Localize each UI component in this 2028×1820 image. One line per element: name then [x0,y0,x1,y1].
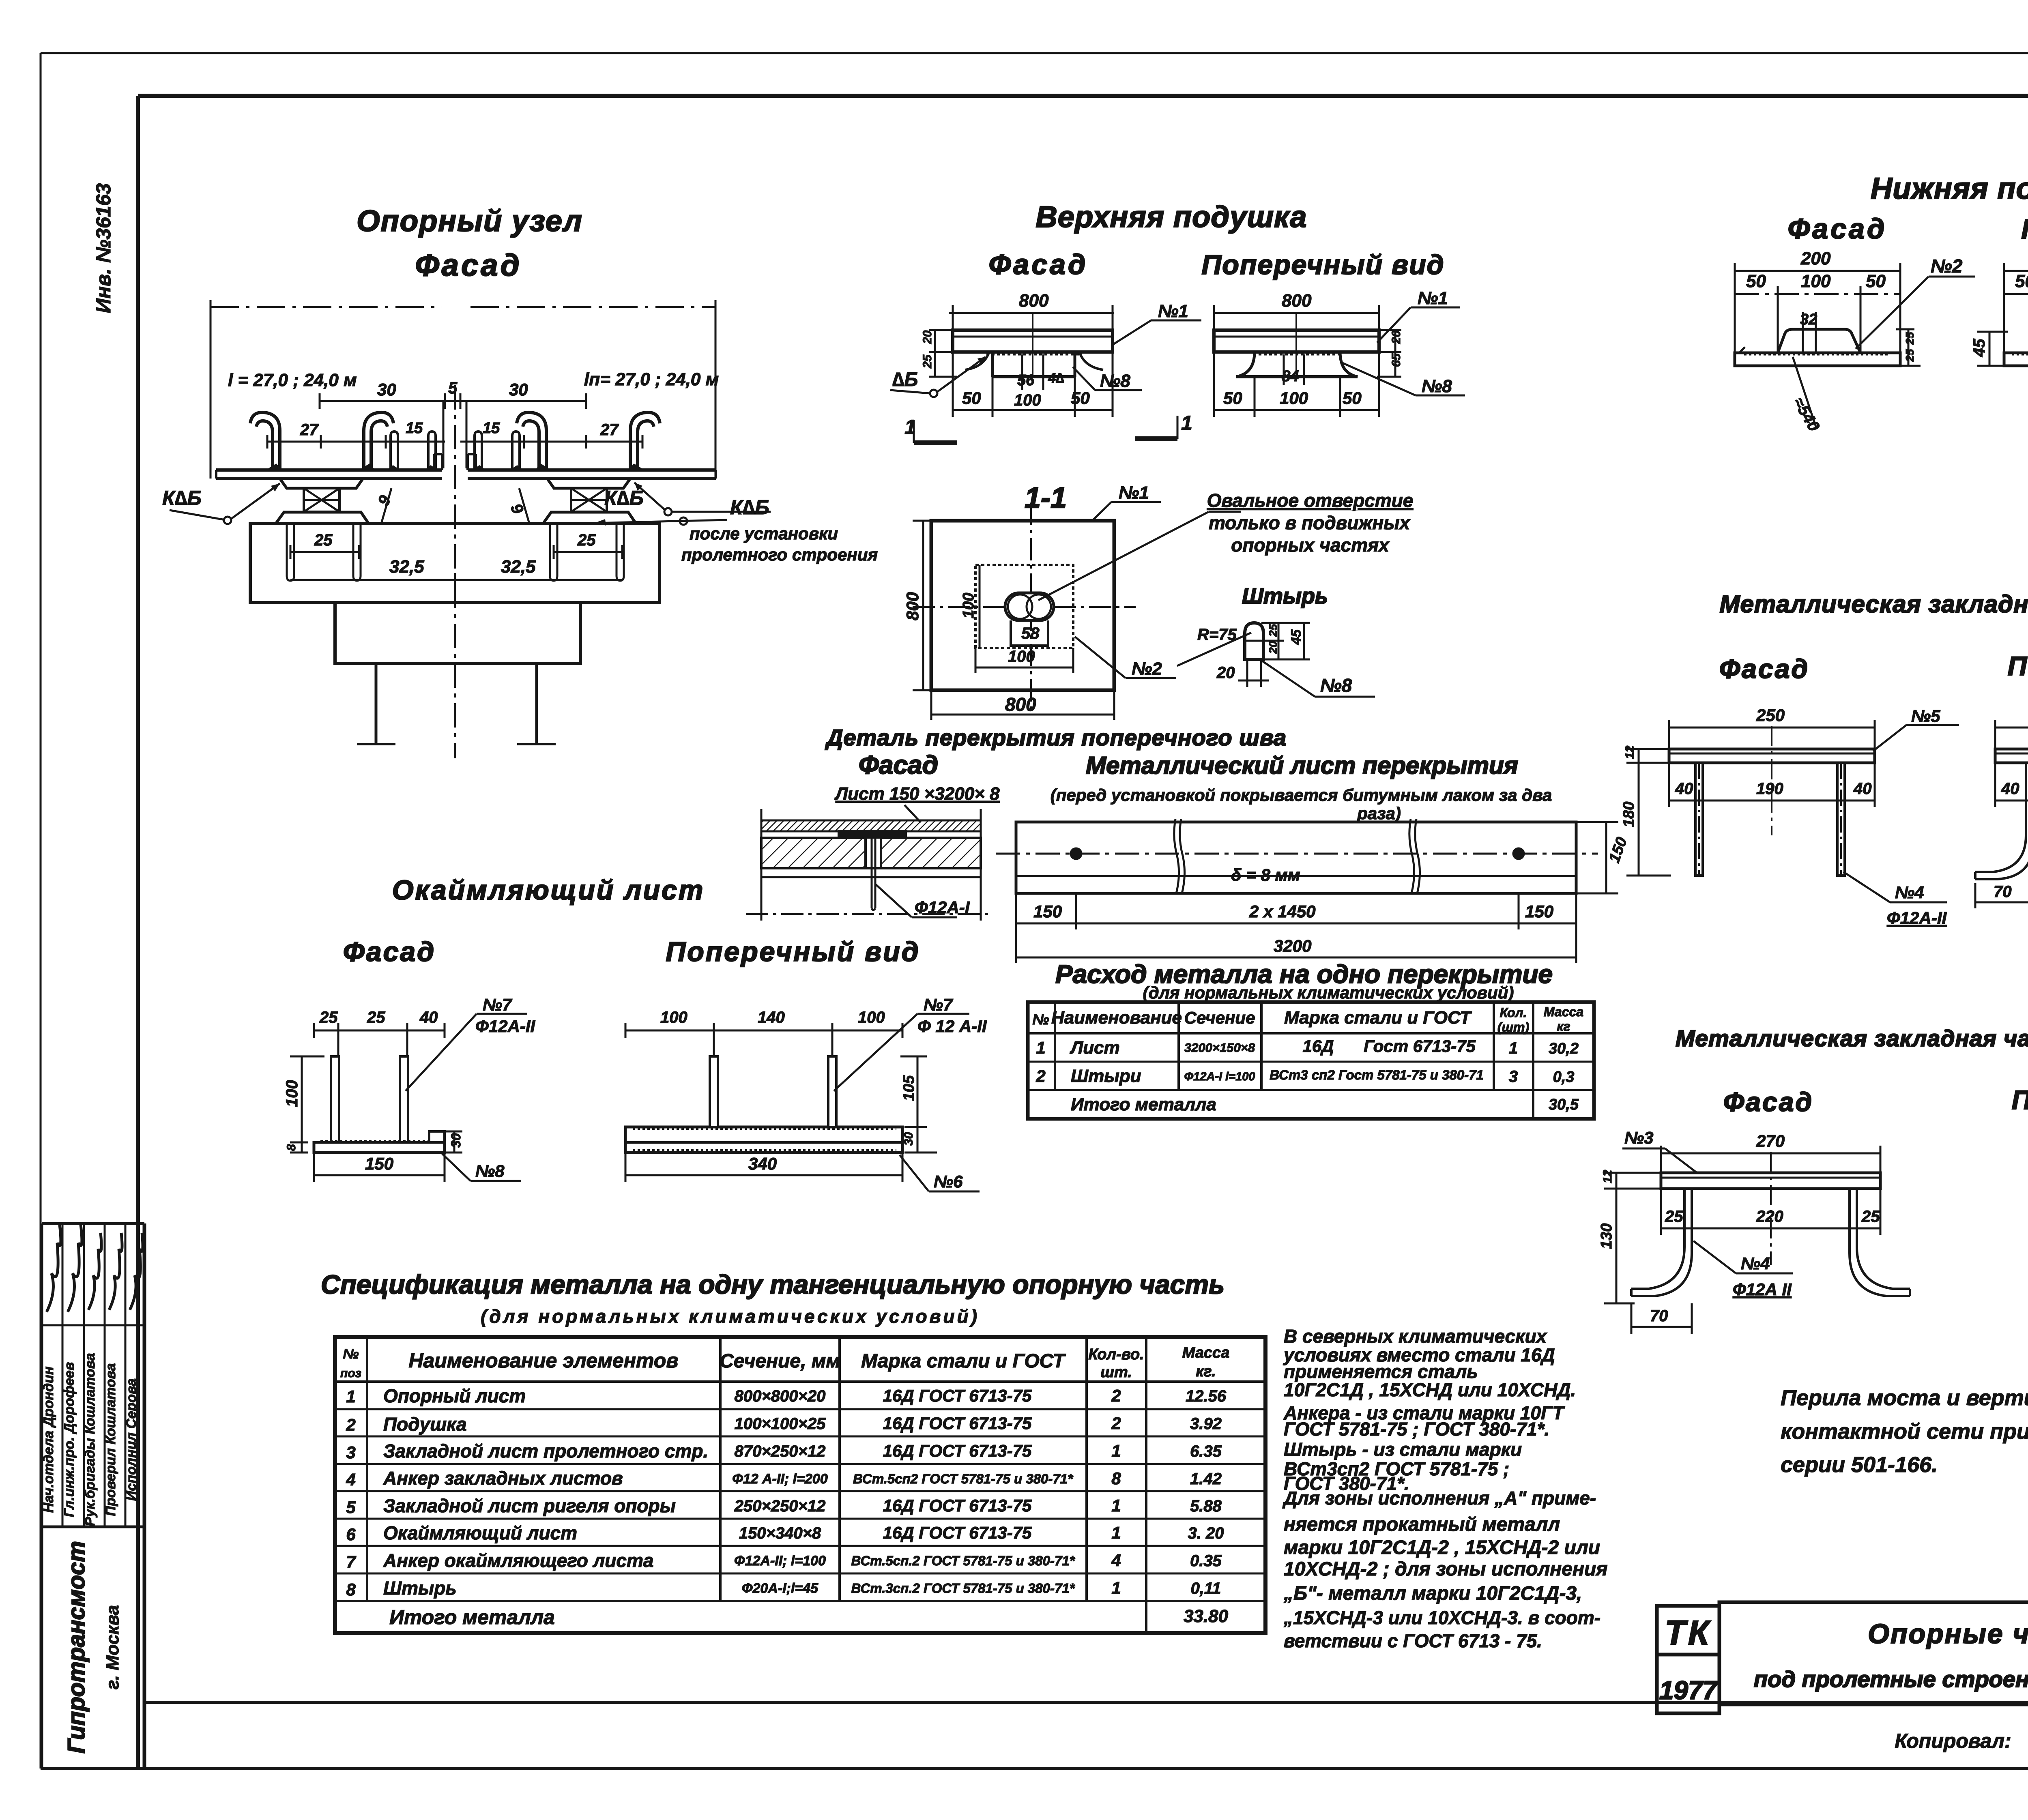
svg-text:70: 70 [1994,883,2012,901]
svg-text:15: 15 [483,420,500,437]
rotated inventory note left top [92,183,115,313]
закладная пролетного фасад: лист с отгибами [1631,1173,1910,1296]
svg-text:Гл.инж.про. Дорофеев: Гл.инж.про. Дорофеев [62,1362,77,1517]
svg-text:30: 30 [509,380,528,399]
svg-text:16Д ГОСТ 6713-75: 16Д ГОСТ 6713-75 [883,1441,1032,1460]
svg-text:Фасад: Фасад [343,936,436,967]
svg-text:ВСт3 сп2 Гост 5781-75 и 380: ВСт3 сп2 Гост 5781-75 и 380-71 [1270,1067,1484,1082]
svg-text:16Д: 16Д [1302,1037,1334,1056]
верхняя подушка поперечный вид: выноска N1 [1377,288,1460,343]
svg-text:Поперечный вид: Поперечный вид [2012,1085,2028,1115]
svg-text:Поперечный вид: Поперечный вид [1201,249,1444,280]
svg-text:Окаймляющий лист: Окаймляющий лист [392,875,705,906]
svg-text:1977: 1977 [1659,1676,1719,1705]
закладная ригеля поперечный вид: размер 250 [1995,706,2028,750]
металлический лист: контур в плане [996,822,1598,893]
сечение 1-1: овальное отверстие [1005,593,1054,646]
svg-text:5: 5 [448,379,458,397]
svg-text:3.92: 3.92 [1190,1415,1222,1433]
svg-text:150×340×8: 150×340×8 [739,1524,821,1542]
окаймляющий лист: титул [343,875,920,967]
svg-text:58: 58 [1021,625,1040,642]
окаймляющий лист фасад: размер 150 внизу [314,1153,445,1182]
сечение 1-1: опорный лист в плане [931,521,1114,690]
svg-text:∆Б: ∆Б [892,369,918,391]
svg-text:Для зоны исполнения „А" приме: Для зоны исполнения „А" приме- [1282,1487,1596,1509]
верхняя подушка фасад: подушка [993,352,1075,409]
нижняя подушка: титул [1788,172,2028,245]
svg-text:Подушка: Подушка [383,1414,467,1435]
bottom strip captions [1895,1728,2028,1752]
закладная ригеля поперечный вид: размеры 40 170 40 [1995,763,2028,807]
окаймляющий лист поперечный вид: размер 340 внизу [625,1153,902,1182]
svg-text:няется прокатный металл: няется прокатный металл [1284,1514,1560,1535]
svg-text:105: 105 [900,1075,917,1101]
svg-text:Спецификация металла на одну: Спецификация металла на одну тангенциаль… [321,1269,1225,1299]
опорный узел: ригель опоры [250,524,660,603]
деталь перекрытия фасад: выноска листа [834,784,1000,822]
svg-text:25: 25 [314,531,333,549]
верхняя подушка поперечный вид: размер 800 [1214,291,1379,328]
сечение 1-1: выноска N2 [1075,637,1176,679]
svg-text:Ф12А-II: Ф12А-II [475,1017,535,1036]
metal usage table grid [1028,1002,1594,1119]
svg-text:3200×150×8: 3200×150×8 [1184,1041,1255,1055]
svg-text:25: 25 [1903,349,1916,362]
деталь перекрытия: титулы [825,725,1552,823]
svg-text:800: 800 [903,592,922,620]
штырь: размер 20 внизу [1216,664,1269,687]
закладная ригеля фасад: размер 250 [1669,706,1875,750]
svg-text:150: 150 [365,1154,393,1173]
окаймляющий лист поперечный вид: размеры справа [900,1056,937,1153]
окаймляющий лист поперечный вид: лист со штырями [625,1056,902,1153]
нижняя подушка поперечный вид: подушка [2004,320,2028,366]
svg-text:5.88: 5.88 [1190,1497,1222,1515]
svg-text:100: 100 [858,1009,885,1026]
svg-text:6.35: 6.35 [1190,1442,1222,1460]
штырь: деталь [1245,623,1263,680]
svg-text:3200: 3200 [1274,936,1311,955]
svg-text:Закладной лист ригеля опоры: Закладной лист ригеля опоры [383,1495,676,1516]
svg-text:50: 50 [1343,388,1362,408]
сечение 1-1: размер 100 внизу [975,648,1073,673]
svg-text:Инв. №36163: Инв. №36163 [92,183,115,313]
svg-text:Анкер окаймляющего листа: Анкер окаймляющего листа [383,1550,653,1571]
svg-text:Опорный лист: Опорный лист [383,1385,526,1406]
svg-text:1: 1 [904,416,916,438]
svg-text:Масса: Масса [1544,1004,1583,1019]
svg-text:Перила моста и вертикальный: Перила моста и вертикальный щит огражден… [1781,1386,2028,1410]
svg-text:Копировал:: Копировал: [1895,1730,2011,1752]
svg-text:Лист: Лист [1070,1038,1120,1058]
металлический лист: размеры справа 140 150 [1574,822,1631,893]
svg-text:Штыри: Штыри [1071,1066,1141,1086]
svg-text:100: 100 [1801,271,1831,291]
сечение 1-1: размер 100 слева [960,565,980,648]
svg-text:27: 27 [300,421,319,439]
svg-text:100: 100 [960,593,977,618]
svg-text:40: 40 [419,1009,438,1026]
svg-text:20: 20 [1216,664,1235,682]
svg-text:ВСт.3сп.2 ГОСТ 5781-75 и 380-7: ВСт.3сп.2 ГОСТ 5781-75 и 380-71* [851,1581,1075,1596]
опорный узел: выноска КДБ левая [162,483,280,524]
svg-text:100: 100 [283,1080,301,1107]
опорный узел: верхняя размерная линия [211,300,719,479]
штырь: размер R=75 [1177,626,1251,666]
svg-text:№8: №8 [1320,675,1352,696]
svg-text:Лист 150 ×3200× 8: Лист 150 ×3200× 8 [834,784,1000,804]
опорный узел: нижний уступ [335,603,580,663]
окаймляющий лист фасад: выноска N7 [406,995,535,1091]
опорный узел: размер 30 5 30 [320,379,586,409]
деталь перекрытия фасад: бетон с штриховкой [761,838,981,877]
svg-text:Гост 6713-75: Гост 6713-75 [1364,1037,1476,1056]
svg-text:30: 30 [449,1133,463,1148]
svg-text:800: 800 [1005,694,1036,715]
svg-text:870×250×12: 870×250×12 [735,1442,826,1460]
svg-text:Окаймляющий лист: Окаймляющий лист [383,1522,577,1543]
svg-text:70: 70 [1650,1307,1668,1325]
svg-text:32: 32 [1800,311,1817,328]
штырь: титул [1242,584,1328,608]
svg-text:Нижняя подушка: Нижняя подушка [1871,172,2028,205]
деталь перекрытия фасад: выноска Ф12А-I [875,884,970,917]
svg-text:(для нормальных климатических: (для нормальных климатических условий) [481,1306,980,1327]
svg-text:10Г2С1Д , 15ХСНД или 10ХС: 10Г2С1Д , 15ХСНД или 10ХСНД. [1284,1379,1576,1400]
закладная пролетного фасад: выноска N4 [1693,1241,1793,1299]
svg-text:№1: №1 [1119,483,1149,503]
svg-text:2: 2 [1111,1386,1121,1405]
svg-text:контактной сети принимать: контактной сети принимать по проекту [1781,1419,2028,1444]
svg-text:12: 12 [1623,745,1637,759]
svg-text:50: 50 [1866,271,1886,291]
svg-text:800: 800 [1282,291,1312,311]
svg-text:пролетного строения: пролетного строения [681,545,878,564]
svg-text:1: 1 [1036,1038,1045,1057]
svg-text:40: 40 [1853,780,1872,798]
svg-text:№7: №7 [924,995,953,1014]
svg-text:Деталь перекрытия поперечног: Деталь перекрытия поперечного шва [825,725,1287,750]
svg-text:25: 25 [577,531,596,549]
закладная ригеля фасад: лист с анкерами [1669,749,1875,876]
svg-text:К∆Б: К∆Б [730,496,769,519]
svg-text:27: 27 [600,421,619,439]
svg-text:25: 25 [367,1009,385,1026]
svg-text:г. Москва: г. Москва [103,1605,122,1689]
svg-text:45: 45 [1289,629,1304,645]
закладная часть пролетного строения: титул [1676,1026,2028,1117]
svg-text:ВСт.5сп.2 ГОСТ 5781-75 и 380-7: ВСт.5сп.2 ГОСТ 5781-75 и 380-71* [851,1553,1075,1568]
опорный узел: осевая линия [454,385,456,758]
опорный узел: выноска КДБ правая верхняя [604,483,771,515]
опорный узел: штыри левой балки [391,431,436,470]
закладная ригеля фасад: выноска N4 [1843,872,1947,927]
закладная пролетного фасад: размеры 25 220 25 [1661,1189,1880,1235]
svg-text:140: 140 [758,1009,785,1026]
specification table text [340,1344,1229,1629]
svg-text:40: 40 [1675,780,1693,798]
svg-text:130: 130 [1598,1223,1615,1249]
svg-text:3: 3 [1509,1068,1518,1086]
svg-text:Ф20А-I;l=45: Ф20А-I;l=45 [742,1581,819,1596]
верхняя подушка фасад: метка сечения 1-1 [904,412,1192,443]
металлический лист: отверстия [1071,848,1524,859]
svg-text:180: 180 [1620,802,1637,827]
svg-text:1: 1 [1111,1441,1121,1460]
svg-text:25: 25 [1267,624,1279,637]
svg-text:Ф12А II: Ф12А II [1733,1280,1792,1299]
верхняя подушка поперечный вид: опорный лист [1214,314,1379,376]
закладная часть ригеля: титул [1719,590,2028,684]
svg-text:4∆: 4∆ [1048,371,1064,386]
svg-text:В северных климатических: В северных климатических [1284,1326,1548,1347]
нижняя подушка поперечный вид: размеры 50 100 50 [2004,271,2028,355]
svg-text:1: 1 [1111,1578,1121,1597]
svg-text:Опорные части: Опорные части [1868,1618,2028,1649]
svg-text:25: 25 [319,1009,338,1026]
svg-text:12.56: 12.56 [1186,1387,1227,1405]
specification table title [321,1269,1225,1327]
svg-text:30: 30 [377,380,396,399]
svg-text:16Д ГОСТ 6713-75: 16Д ГОСТ 6713-75 [883,1523,1032,1542]
окаймляющий лист фасад: размер 30 справа [442,1131,463,1153]
svg-text:ветствии с ГОСТ 6713 - 75.: ветствии с ГОСТ 6713 - 75. [1284,1630,1542,1651]
верхняя подушка фасад: выноска N8 [1073,367,1142,391]
закладная пролетного фасад: размеры слева 12 130 [1598,1170,1663,1303]
svg-text:№1: №1 [1418,288,1448,308]
svg-text:Нач.отдела Дрондин: Нач.отдела Дрондин [41,1367,56,1513]
svg-text:250: 250 [1756,706,1785,725]
svg-text:l = 27,0 ; 24,0 м: l = 27,0 ; 24,0 м [228,370,357,390]
svg-text:под пролетные строения lп=27.0: под пролетные строения lп=27.0;24,0м [1754,1666,2028,1692]
верхняя подушка поперечный вид: выноска N8 [1343,363,1465,396]
svg-text:20: 20 [1267,641,1279,654]
svg-text:№6: №6 [934,1172,963,1191]
закладная пролетного фасад: размер 270 [1661,1131,1880,1176]
svg-text:30: 30 [902,1132,915,1146]
svg-text:№4: №4 [1895,883,1924,902]
svg-text:Ф12А-I l=100: Ф12А-I l=100 [1184,1070,1255,1083]
нижняя подушка фасад: размеры 50 100 50 [1735,271,1900,355]
опорный узел: анкеры в ригеле [287,524,624,581]
верхняя подушка фасад: размеры 50 100 50 [953,352,1113,417]
svg-text:7: 7 [346,1552,356,1571]
опорный узел: левая полка балки [216,454,442,479]
svg-text:серии 501-166.: серии 501-166. [1781,1453,1938,1477]
svg-text:Ф12 А-II; l=200: Ф12 А-II; l=200 [732,1471,827,1487]
закладная ригеля фасад: размеры слева 12 180 [1620,745,1671,876]
svg-text:Кол.: Кол. [1500,1005,1527,1020]
svg-text:Фасад: Фасад [859,750,938,779]
svg-text:32,5: 32,5 [389,557,424,577]
svg-text:56: 56 [1017,372,1035,389]
окаймляющий лист поперечный вид: размеры 100 140 100 [625,1009,902,1058]
svg-text:50: 50 [2015,271,2028,291]
metal usage table text [1032,1004,1583,1114]
svg-text:кг.: кг. [1196,1363,1216,1380]
svg-text:кг: кг [1557,1019,1570,1034]
svg-text:84: 84 [1282,368,1299,385]
металлический лист: линии обрыва [1174,819,1420,893]
bottom band divider [144,1701,2028,1704]
svg-text:раза): раза) [1357,804,1401,823]
svg-text:№8: №8 [1422,376,1452,396]
svg-text:100: 100 [1008,648,1035,665]
svg-text:опорных частях: опорных частях [1231,534,1390,556]
specification table grid [335,1337,1265,1633]
svg-text:8: 8 [285,1144,298,1151]
svg-text:25: 25 [1665,1208,1683,1225]
svg-text:№8: №8 [475,1161,505,1180]
svg-text:4: 4 [1111,1551,1121,1570]
svg-text:Проверил Кошлатова: Проверил Кошлатова [103,1363,118,1516]
svg-text:50: 50 [962,388,981,408]
svg-text:№3: №3 [1624,1128,1654,1147]
штырь: размеры справа 25 20 45 [1261,623,1310,659]
окаймляющий лист фасад: размеры 25 25 40 [314,1009,445,1058]
svg-text:800×800×20: 800×800×20 [735,1387,826,1405]
опорный узел: размер 25 правый [554,531,622,559]
svg-text:ГОСТ 5781-75 ; ГОСТ 380-71*.: ГОСТ 5781-75 ; ГОСТ 380-71*. [1284,1419,1549,1440]
svg-text:Штырь: Штырь [383,1577,457,1599]
svg-text:16Д ГОСТ 6713-75: 16Д ГОСТ 6713-75 [883,1414,1032,1433]
svg-text:марки 10Г2С1Д-2 , 15ХСНД-2 ил: марки 10Г2С1Д-2 , 15ХСНД-2 или [1284,1537,1600,1558]
закладная пролетного фасад: размер 70 [1631,1303,1692,1334]
деталь перекрытия фасад: лист с битумом [761,820,981,839]
svg-text:800: 800 [1019,291,1049,311]
svg-text:25: 25 [1861,1208,1880,1225]
svg-text:Ф12А-II; l=100: Ф12А-II; l=100 [734,1553,826,1569]
svg-text:№1: №1 [1158,301,1188,321]
svg-text:№: № [1032,1011,1049,1028]
нижняя подушка фасад: подушка с горбом [1735,311,1900,366]
svg-text:№2: №2 [1931,255,1963,277]
деталь перекрытия фасад: ось и границы [746,809,990,921]
верхняя подушка фасад: размер 800 [949,291,1114,328]
сечение 1-1: титул [1025,482,1067,514]
верхняя подушка: титул [989,200,1445,280]
svg-text:№8: №8 [1100,371,1130,391]
нижняя подушка поперечный вид: размер 200 [2004,249,2028,355]
svg-text:Поперечный вид: Поперечный вид [2008,651,2028,681]
svg-text:250×250×12: 250×250×12 [734,1497,826,1515]
svg-text:№: № [343,1346,359,1362]
svg-text:Ф12А-II: Ф12А-II [1887,908,1947,927]
svg-text:(шт): (шт) [1497,1020,1529,1034]
svg-text:5: 5 [346,1498,356,1517]
svg-text:6: 6 [346,1525,356,1544]
сечение 1-1: размер 800 внизу [931,690,1114,720]
svg-text:ВСт.5сп2 ГОСТ 5781-75 и 380-71: ВСт.5сп2 ГОСТ 5781-75 и 380-71* [853,1471,1074,1486]
нижняя подушка фасад: выноска 540 [1790,357,1823,434]
металлический лист: размеры 150 2х1450 150 [1016,893,1576,963]
svg-text:№7: №7 [483,995,512,1014]
svg-text:Гипротрансмост: Гипротрансмост [63,1541,90,1753]
stamp org name rotated [63,1541,122,1753]
верхняя подушка фасад: опорный лист [953,314,1113,376]
svg-text:Штырь: Штырь [1242,584,1328,608]
svg-text:270: 270 [1756,1131,1785,1150]
svg-text:50: 50 [1223,388,1242,408]
svg-text:100×100×25: 100×100×25 [735,1415,826,1433]
svg-text:(для нормальных климатическ: (для нормальных климатических условий) [1143,983,1514,1002]
окаймляющий лист поперечный вид: выноска N6 [900,1155,980,1191]
svg-text:100: 100 [660,1009,687,1026]
верхняя подушка фасад: размеры слева 20 25 [921,330,957,377]
svg-text:3: 3 [346,1443,355,1462]
штырь: выноска N8 [1262,661,1375,697]
сечение 1-1: размер 800 слева [903,521,935,690]
svg-text:33.80: 33.80 [1184,1606,1229,1626]
опорный узел: размер 25 левый [290,531,359,559]
svg-text:Сечение: Сечение [1184,1008,1255,1027]
svg-text:25: 25 [921,354,934,369]
svg-text:Штырь - из стали марки: Штырь - из стали марки [1284,1439,1522,1460]
svg-text:15: 15 [406,420,423,437]
TK year box [1657,1606,1719,1713]
svg-text:Рук.бригады Кошлатова: Рук.бригады Кошлатова [82,1353,98,1526]
svg-text:0,3: 0,3 [1553,1069,1575,1086]
svg-text:16Д ГОСТ 6713-75: 16Д ГОСТ 6713-75 [883,1496,1032,1515]
svg-text:„Б"- металл марки 10Г2С1Д-3: „Б"- металл марки 10Г2С1Д-3, [1283,1583,1582,1604]
svg-text:(перед установкой покрываетс: (перед установкой покрывается битумным л… [1051,786,1552,805]
svg-text:Масса: Масса [1182,1344,1230,1361]
svg-text:Верхняя подушка: Верхняя подушка [1035,200,1307,234]
svg-text:№4: №4 [1741,1254,1770,1273]
svg-text:Наименование элементов: Наименование элементов [408,1349,678,1372]
опорный узел: размер 32,5 32,5 [290,557,622,587]
svg-text:Металлический лист перекрыти: Металлический лист перекрытия [1086,752,1518,779]
svg-text:190: 190 [1756,780,1783,798]
svg-text:Овальное отверстие: Овальное отверстие [1207,490,1414,511]
svg-text:1.42: 1.42 [1190,1470,1222,1488]
сечение 1-1: осевые линии [913,503,1136,714]
svg-text:150: 150 [1033,902,1062,921]
svg-text:32,5: 32,5 [501,557,536,577]
svg-text:45: 45 [1970,339,1988,357]
окаймляющий лист фасад: лист со штырями [314,1056,445,1153]
svg-text:12: 12 [1601,1170,1614,1183]
title block outline [1719,1602,2028,1704]
нижняя подушка поперечный вид: размер 45 [1970,332,2008,366]
svg-text:Поперечный вид: Поперечный вид [2021,214,2028,245]
svg-text:2: 2 [1111,1414,1121,1433]
svg-text:Марка стали и ГОСТ: Марка стали и ГОСТ [861,1350,1066,1372]
svg-text:Кол-во.: Кол-во. [1088,1346,1144,1363]
сечение 1-1: выноска N1 [1067,483,1161,545]
закладная ригеля фасад: размеры 40 190 40 [1669,763,1875,807]
note about railing (right middle) [1781,1386,2028,1477]
svg-text:Сечение, мм: Сечение, мм [720,1350,840,1372]
закладная ригеля фасад: выноска N5 [1873,706,1959,751]
svg-text:220: 220 [1756,1208,1783,1225]
закладная ригеля поперечный вид: размеры 70 [1975,883,2028,908]
svg-text:поз: поз [340,1367,361,1380]
верхняя подушка поперечный вид: подушка с выкружками [1236,352,1358,385]
svg-text:20: 20 [1390,330,1403,344]
svg-text:Марка стали и ГОСТ: Марка стали и ГОСТ [1284,1008,1472,1028]
опорный узел: тело опоры [357,663,556,744]
svg-text:1: 1 [1181,412,1192,434]
svg-text:Ф 12 А-II: Ф 12 А-II [917,1017,987,1036]
опорный узел: торцы балок у шва [443,401,466,468]
title text [1754,1618,2028,1692]
stamp signatures rotated [41,1225,143,1526]
svg-text:2 х 1450: 2 х 1450 [1249,902,1316,921]
svg-text:„15ХСНД-3 или 10ХСНД-3. в со: „15ХСНД-3 или 10ХСНД-3. в соот- [1283,1607,1600,1628]
опорный узел: выноска КДБ правая нижняя [592,496,878,564]
